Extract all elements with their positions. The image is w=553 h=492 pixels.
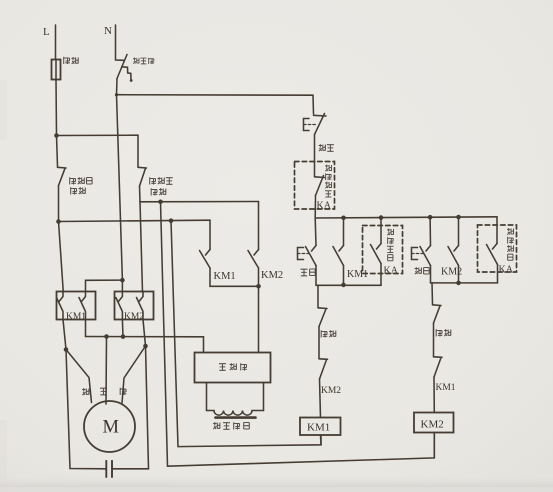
brake coil winding — [207, 411, 264, 416]
label 防冲顶 — [150, 177, 173, 184]
node J6 — [169, 218, 174, 223]
thermal protector 热保护 seat — [116, 59, 125, 61]
svg-text:KM1: KM1 — [66, 312, 86, 322]
label 开门 — [301, 269, 316, 276]
contact KM2 hold lead — [458, 217, 460, 246]
contactor KM2 pole 1 — [116, 292, 123, 320]
control bus H4 — [315, 217, 497, 218]
capacitor plate left — [105, 461, 107, 477]
wire bus to rectifier input — [203, 337, 205, 353]
wire thermal to node J3 — [116, 79, 119, 95]
limit switch 防冲底限位 (NC) — [58, 167, 67, 185]
node J14 — [428, 215, 433, 220]
open button 开门 lead — [314, 218, 317, 246]
contact KA remote-stop lead — [314, 162, 316, 177]
wire J7 down to capacitor — [66, 350, 106, 469]
label 防冲底 — [70, 177, 92, 184]
wire KM2 pole2 bottom to J10 — [143, 320, 146, 347]
contactor KM1 pole 1 — [57, 292, 64, 320]
coil KM2 box — [414, 413, 454, 433]
wire open branch down — [317, 285, 319, 307]
contact KM1 hold (NO) — [333, 246, 344, 266]
stop button actuator bracket — [304, 119, 310, 131]
label 整流板 — [219, 363, 247, 370]
wire yellow motor lead — [105, 337, 108, 405]
contactor KM2 pole 2 — [137, 292, 144, 320]
wire common bus H3 — [86, 336, 204, 338]
contact KM2 hold (NO) — [448, 246, 459, 266]
node J3 — [115, 93, 118, 96]
close button actuator link — [412, 253, 424, 255]
svg-text:KM1: KM1 — [347, 269, 368, 280]
contact KA remote-close bottom lead — [497, 265, 499, 283]
wire L to node J1 — [55, 80, 58, 136]
svg-text:N: N — [104, 25, 112, 37]
wire control feed N to stop button — [117, 95, 314, 114]
wire to KM2 interlock — [318, 327, 320, 359]
label 限位 lower-left — [71, 187, 86, 194]
lower bus L2 — [431, 282, 498, 284]
wire to KM1 interlock — [433, 323, 435, 356]
limit switch 限位 left (NC) — [318, 308, 327, 327]
node J11 — [256, 284, 261, 289]
contact KM1 interlock (NC) — [434, 357, 443, 377]
contact KA remote-close (NO) — [487, 244, 498, 265]
wire KM1 pole2 bottom — [85, 320, 87, 337]
wire J1 down to bottom-limit switch — [57, 136, 58, 167]
wire switch to node T1 — [139, 186, 142, 202]
open button bottom lead — [315, 266, 317, 286]
close button bottom lead — [430, 266, 432, 283]
node J17 — [456, 281, 461, 286]
contact KM1 aux (NO) — [200, 250, 211, 269]
node J8 — [104, 334, 109, 339]
label 保险 (fuse) — [64, 57, 70, 64]
dashed box 遥控开门 — [363, 226, 403, 274]
node J7 — [64, 347, 69, 352]
contact KA remote-stop (NC) — [315, 176, 325, 196]
close button 关门 lead — [429, 217, 431, 245]
limit switch 限位 right (NC) — [433, 305, 442, 323]
dashed box 遥控停止 — [295, 162, 335, 210]
svg-text:KA: KA — [499, 265, 514, 276]
CJK labels as pseudo-glyphs — [64, 57, 514, 430]
svg-text:KA: KA — [384, 266, 399, 277]
contact KA remote-open lead — [380, 218, 382, 244]
svg-text:KA: KA — [317, 201, 332, 212]
rectifier board 整流板 box — [195, 353, 271, 383]
capacitor plate right — [111, 461, 113, 477]
stop button blade — [315, 114, 325, 135]
svg-text:KM2: KM2 — [261, 270, 283, 281]
label 黄 — [100, 388, 107, 395]
thermal heater end blob — [130, 79, 133, 82]
wire stop to KA-stop box — [314, 135, 316, 163]
wire KM2 aux top lead — [258, 202, 260, 250]
node J9 — [121, 334, 126, 339]
wire KM2 aux bottom lead — [258, 268, 260, 286]
left edge shading — [0, 80, 7, 140]
wire KA-stop to control bus — [314, 196, 316, 219]
wire J4 branch to KM1 box right contact — [86, 280, 123, 292]
contact KA remote-close lead — [496, 217, 498, 244]
wire to KM1 coil — [320, 379, 321, 418]
wire H2 horizontal L feed to KM1 aux — [59, 220, 211, 221]
contactor KM1 main box — [57, 292, 96, 320]
contactor KM2 main box — [115, 292, 154, 320]
coil KM1 box — [300, 418, 341, 436]
label 停止 — [319, 144, 334, 151]
wire KM1 pole1 bottom to node J7 — [63, 320, 66, 350]
node J4 — [120, 278, 125, 283]
wire switch to node J2 — [58, 186, 60, 222]
contact KM1 hold bottom lead — [343, 266, 345, 285]
thermal protector contact blade — [117, 55, 127, 79]
contact KM2 hold bottom lead — [458, 266, 460, 283]
limit switch 防冲顶限位 (NC) — [138, 167, 147, 186]
wire H1 horizontal feed to KM2 aux — [140, 201, 259, 203]
label 红 — [82, 388, 89, 395]
label 限位 close branch — [436, 329, 451, 336]
wire J11 down to rectifier input — [258, 286, 260, 352]
open button 开门 (NO) — [306, 246, 317, 266]
fuse through-wire — [55, 60, 57, 80]
svg-text:KM2: KM2 — [441, 267, 462, 278]
label 绿 — [120, 388, 126, 395]
wire L top — [55, 25, 57, 60]
open button actuator bracket — [298, 248, 304, 260]
contactor KM1 pole 2 — [79, 292, 86, 320]
node J1 — [54, 133, 59, 138]
wire V1 KM2-coil return riser — [161, 202, 435, 466]
wire down to top-limit switch — [137, 135, 139, 167]
node J5 — [158, 200, 163, 205]
node J2 — [56, 219, 61, 224]
label 遥控关门 vertical — [507, 228, 514, 260]
label 热保护 (thermal) — [133, 58, 154, 65]
node J13 — [379, 215, 384, 220]
contact KM2 interlock (NC) — [319, 359, 328, 379]
contact KM2 aux (NO) — [248, 250, 259, 269]
label 限位 upper-right — [151, 188, 166, 195]
wire KM2 pole1 bottom to bus — [121, 320, 124, 337]
bottom photo band — [0, 474, 553, 487]
svg-text:KM1: KM1 — [307, 422, 330, 434]
wire close branch down — [431, 283, 434, 304]
motor M circle — [84, 401, 135, 452]
contact KM1 hold lead — [343, 218, 345, 246]
label 遥控停止 vertical — [325, 165, 332, 197]
node J16 — [341, 283, 346, 288]
lower bus L1 — [316, 284, 381, 286]
contact KA remote-open (NO) — [371, 244, 382, 264]
wire to KM2 coil — [433, 377, 435, 413]
svg-text:M: M — [103, 418, 119, 438]
fuse (保险) body — [52, 60, 61, 80]
label 刹车线圈 — [213, 422, 249, 429]
node J12 — [341, 216, 346, 221]
svg-text:KM1: KM1 — [436, 383, 456, 393]
brake coil core bar — [216, 416, 256, 419]
wire J4 into KM2 box left contact — [121, 280, 123, 292]
svg-text:KM1: KM1 — [214, 271, 236, 282]
svg-text:KM2: KM2 — [124, 312, 144, 322]
wire N top — [115, 25, 117, 60]
wire J1 horizontal to top-limit branch — [57, 134, 139, 136]
wire green motor lead — [122, 346, 146, 403]
thermal protector heater element — [122, 67, 131, 80]
wire J2 down to contactor KM1 box — [59, 222, 64, 293]
wire N long drop to node J4 — [117, 95, 123, 280]
wire V2 KM1-coil return riser — [171, 221, 321, 447]
wire capacitor to node J10 — [113, 346, 149, 469]
wire KM1 aux top lead — [209, 220, 211, 249]
open button actuator link — [298, 253, 310, 255]
rectifier right leg — [263, 383, 265, 411]
node J15 — [456, 215, 461, 220]
label 关门 — [415, 267, 430, 274]
svg-text:KM2: KM2 — [321, 386, 341, 396]
svg-text:L: L — [43, 26, 50, 38]
stop button 停止 (NC) seat — [314, 114, 327, 117]
wire KM1 coil bottom — [320, 435, 323, 445]
contact KA remote-open bottom lead — [380, 264, 382, 286]
close button actuator bracket — [412, 248, 418, 260]
wire KM1 aux bottom to junction J11 — [210, 268, 259, 286]
svg-text:KM2: KM2 — [421, 419, 444, 431]
wire T1 down to contactor KM2 box — [140, 202, 143, 292]
dashed box 遥控关门 — [478, 225, 517, 272]
label 遥控开门 vertical — [387, 229, 394, 261]
node J10 — [143, 344, 148, 349]
rectifier left leg — [206, 383, 208, 411]
stop button actuator link — [304, 124, 318, 126]
label 限位 open branch — [321, 330, 336, 337]
wire red motor lead — [66, 350, 92, 403]
wire KM2 coil bottom — [433, 433, 435, 458]
close button 关门 (NO) — [420, 246, 431, 266]
